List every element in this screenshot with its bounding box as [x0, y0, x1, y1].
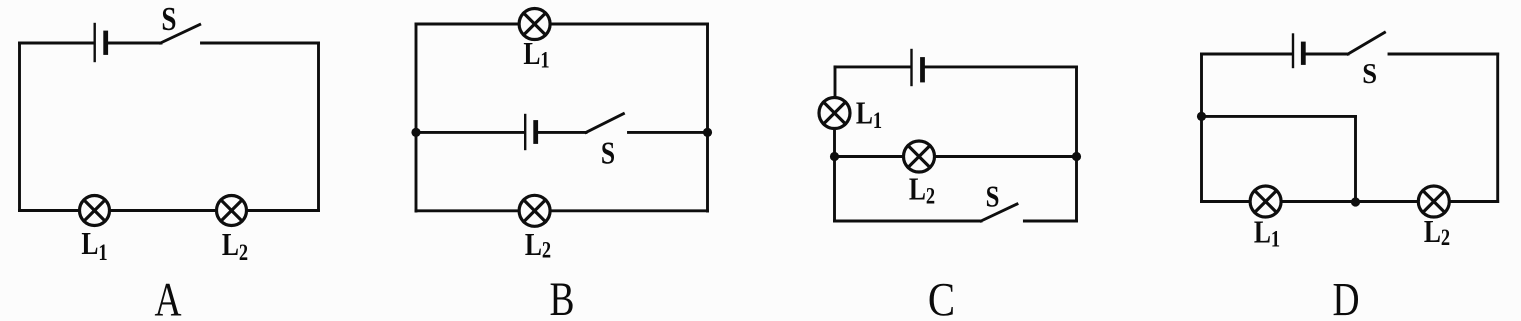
junction node: D bottom — [1351, 197, 1360, 206]
battery (cell) in A: long plate — [93, 24, 95, 61]
wire: D left vertical — [1200, 54, 1203, 202]
wire: C top-left segment — [835, 65, 910, 68]
circuit D — [1197, 33, 1498, 218]
svg-text:L2: L2 — [525, 227, 551, 263]
wire: D bottom segment 1 — [1202, 200, 1251, 203]
svg-text:S: S — [161, 0, 176, 38]
lamp L1 in B — [519, 9, 550, 40]
svg-text:L1: L1 — [1254, 215, 1280, 252]
wire: D top middle segment (battery to switch) — [1305, 53, 1348, 56]
wire: B bottom-left segment — [416, 209, 519, 212]
wire: B middle-left segment — [416, 131, 524, 134]
wire: A top-right segment — [202, 42, 319, 45]
wire: D inner horizontal branch — [1202, 115, 1356, 118]
wire: C left vertical upper — [834, 67, 837, 98]
circuit A — [20, 24, 319, 226]
svg-text:C: C — [928, 272, 955, 321]
svg-text:L1: L1 — [856, 96, 882, 134]
svg-text:S: S — [986, 180, 1000, 214]
svg-text:L2: L2 — [222, 227, 248, 265]
lamp L1 in D — [1250, 186, 1281, 217]
svg-text:S: S — [601, 136, 615, 171]
lamp L2 in B — [519, 195, 550, 226]
svg-text:D: D — [1332, 274, 1359, 321]
switch S in D: blade — [1348, 33, 1385, 55]
circuit C — [819, 50, 1081, 221]
lamp L1 in C — [819, 98, 850, 129]
junction node: C right — [1072, 152, 1081, 161]
battery (cell) in B: long plate — [524, 115, 526, 149]
wire: C left vertical lower — [833, 129, 836, 222]
wire: B left vertical — [415, 24, 418, 211]
wire: D inner vertical branch — [1354, 116, 1357, 201]
lamp L1 in A — [80, 196, 110, 226]
wire: C top-right segment — [924, 65, 1077, 68]
battery (cell) in C: long plate — [910, 50, 912, 85]
battery (cell) in B: short thick plate — [533, 123, 538, 142]
switch S in C: blade — [981, 204, 1017, 221]
wire: C bottom-right segment — [1024, 220, 1076, 223]
junction node: D left — [1197, 112, 1206, 121]
wire: A bottom-right segment — [247, 209, 319, 212]
wire: D bottom segment 3 — [1450, 200, 1498, 203]
wire: C right vertical — [1075, 67, 1078, 221]
wire: A top middle segment (battery to switch) — [107, 42, 161, 45]
svg-text:L1: L1 — [81, 226, 107, 265]
wire: B right vertical — [706, 24, 709, 211]
junction node: B right — [703, 128, 712, 137]
wire: A bottom-left segment — [20, 209, 80, 212]
circuit B — [411, 9, 712, 227]
wire: A top-left segment — [20, 42, 94, 45]
wire: B top-left segment — [416, 23, 519, 26]
wire: B middle-right segment — [629, 131, 708, 134]
junction node: B left — [411, 128, 420, 137]
lamp L2 in C — [904, 141, 935, 172]
wire: A bottom middle segment — [110, 209, 217, 212]
wire: B middle segment (battery to switch) — [537, 131, 586, 134]
wire: C middle-right segment — [935, 155, 1077, 158]
svg-text:B: B — [550, 274, 575, 321]
wire: B bottom-right segment — [550, 209, 708, 212]
wire: C middle-left segment — [835, 155, 904, 158]
lamp L2 in A — [217, 196, 247, 226]
wire: D bottom segment 2 — [1281, 200, 1418, 203]
battery (cell) in D: short thick plate — [1301, 44, 1306, 63]
battery (cell) in C: short thick plate — [920, 60, 925, 81]
svg-text:L2: L2 — [1424, 214, 1450, 250]
wire: D top-left segment — [1202, 53, 1292, 56]
wire: B top-right segment — [550, 23, 708, 26]
wire: D top-right segment — [1389, 53, 1498, 56]
wire: A right vertical — [317, 43, 320, 211]
svg-text:S: S — [1362, 58, 1377, 90]
switch S in A: blade — [161, 25, 200, 44]
lamp L2 in D — [1418, 186, 1449, 217]
wire: C bottom-left segment — [835, 220, 982, 223]
switch S in B: blade — [586, 114, 623, 133]
battery (cell) in D: long plate — [1292, 35, 1294, 68]
svg-text:L1: L1 — [523, 36, 549, 73]
wire: D right vertical — [1496, 54, 1499, 202]
svg-text:A: A — [154, 274, 181, 321]
battery (cell) in A: short thick plate — [103, 33, 108, 53]
junction node: C left — [830, 152, 839, 161]
wire: A left vertical — [18, 43, 21, 211]
svg-text:L2: L2 — [909, 172, 935, 209]
